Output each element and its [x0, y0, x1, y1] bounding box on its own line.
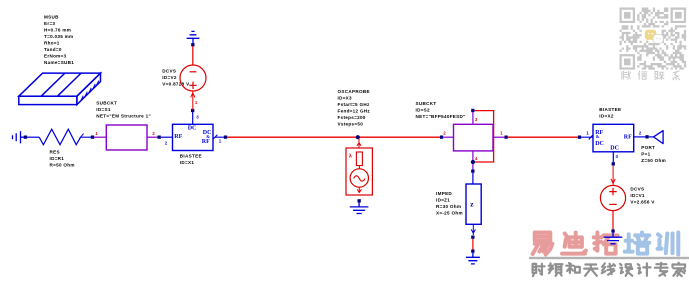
ground below Z1 — [466, 253, 480, 264]
X1 top pin stem — [192, 112, 194, 124]
svg-text:V=0.8728 V: V=0.8728 V — [162, 81, 190, 86]
ground below V1 — [604, 233, 623, 244]
svg-text:ID=V2: ID=V2 — [162, 75, 177, 80]
svg-text:P=1: P=1 — [641, 152, 650, 157]
svg-text:ID=R1: ID=R1 — [50, 156, 65, 161]
V2 minus sign — [190, 71, 197, 73]
svg-text:DC: DC — [610, 145, 619, 151]
oscaprobe internal resistor — [356, 152, 362, 166]
svg-text:DC: DC — [595, 141, 604, 147]
svg-text:Vsteps=50: Vsteps=50 — [338, 121, 364, 126]
svg-text:DCVS: DCVS — [162, 68, 176, 73]
wire V1 bottom — [612, 211, 614, 230]
wire X1 output to S2 input — [227, 136, 440, 138]
wire S2 output to X2 input — [508, 136, 578, 138]
wire V2 top — [192, 46, 194, 65]
svg-text:BIASTEE: BIASTEE — [180, 154, 202, 159]
svg-text:Fsteps=200: Fsteps=200 — [338, 115, 366, 120]
svg-text:DCVS: DCVS — [630, 186, 644, 191]
wire S1 pin2 stem — [147, 136, 158, 138]
terminal S2 pin1 — [505, 136, 508, 139]
V1 plus sign — [609, 188, 616, 195]
X1 RF&DC output pin stem with tick — [213, 135, 224, 139]
svg-text:H=0.76 mm: H=0.76 mm — [44, 27, 71, 32]
wechat icon in QR centre — [645, 30, 657, 40]
terminal S2 pin2 — [440, 136, 443, 139]
svg-text:ErNom=3: ErNom=3 — [44, 53, 67, 58]
svg-text:Fend=12 GHz: Fend=12 GHz — [338, 108, 371, 113]
subckt S1 box — [106, 125, 147, 150]
svg-text:V=2.656 V: V=2.656 V — [630, 199, 655, 204]
oscaprobe internal wire — [358, 166, 360, 170]
ground below oscaprobe — [350, 203, 369, 214]
watermark QR code top-right — [620, 8, 687, 70]
svg-text:T=0.035 mm: T=0.035 mm — [44, 34, 73, 39]
svg-text:ID=X2: ID=X2 — [599, 113, 614, 118]
wire X2 DC to V1 with arrow — [611, 166, 615, 186]
terminal V2 top — [191, 43, 194, 46]
impedance Z1 box — [466, 184, 481, 224]
svg-text:MSUB: MSUB — [44, 14, 59, 19]
svg-text:R=50 Ohm: R=50 Ohm — [50, 163, 75, 168]
watermark big brand text bottom-right (pink+blue) — [533, 233, 679, 255]
terminal X1 out — [224, 136, 227, 139]
oscaprobe X3 outer box — [346, 148, 372, 195]
wire Z1 to ground — [472, 239, 474, 250]
svg-text:RF: RF — [202, 139, 210, 145]
svg-text:RES: RES — [50, 150, 60, 155]
oscaprobe source circle with sine — [350, 169, 368, 187]
wire S2 pin4 stem (bottom) — [472, 151, 474, 170]
junction node S2 pin4 / feedback / Z1 — [471, 160, 475, 164]
wire X1 RF pin stem — [161, 136, 173, 138]
svg-text:SUBCKT: SUBCKT — [416, 101, 437, 106]
ground (left, rotated) — [13, 131, 25, 143]
svg-text:ID=X1: ID=X1 — [180, 160, 195, 165]
svg-text:R=30 Ohm: R=30 Ohm — [436, 204, 461, 209]
subckt S2 box — [454, 124, 494, 151]
watermark underline — [529, 257, 689, 259]
svg-text:Er=3: Er=3 — [44, 21, 55, 26]
terminal Z1 top — [471, 170, 474, 173]
terminal Z1 bottom — [471, 236, 474, 239]
oscaprobe bottom arrow — [357, 187, 361, 192]
terminal X2 input — [578, 136, 581, 139]
wire ground to resistor — [27, 136, 39, 138]
svg-text:ID=S2: ID=S2 — [416, 108, 431, 113]
dc source V1 circle — [600, 185, 625, 210]
V2 plus sign — [189, 82, 196, 89]
svg-text:NET="BFP540FESD": NET="BFP540FESD" — [416, 114, 466, 119]
svg-text:NET="EM Structure 1": NET="EM Structure 1" — [96, 114, 151, 119]
watermark slogan line bottom-right — [533, 263, 686, 276]
watermark text "wei xin lian xi" under QR — [622, 71, 680, 80]
junction node at oscaprobe tap — [356, 135, 360, 139]
svg-text:BIASTEE: BIASTEE — [599, 107, 621, 112]
svg-text:SUBCKT: SUBCKT — [96, 101, 117, 106]
ground (top, flipped) above V2 — [187, 31, 200, 43]
MSUB substrate 3D symbol — [19, 73, 101, 105]
wire X2 RF&DC pin stem with tick — [581, 135, 593, 139]
X2 bottom pin stem — [612, 152, 614, 163]
svg-text:Tand=0: Tand=0 — [44, 47, 62, 52]
terminal at resistor input — [24, 136, 27, 139]
wire Z1 top stem — [472, 173, 474, 184]
svg-text:Fstart=5 GHz: Fstart=5 GHz — [338, 102, 370, 107]
terminal V1 bottom — [611, 229, 614, 232]
dc source V2 circle — [180, 65, 206, 91]
terminal S2 pin3 — [471, 109, 474, 112]
svg-text:RF: RF — [174, 134, 182, 140]
node terminal at S1 pin 1 — [91, 136, 94, 139]
svg-text:ID=X3: ID=X3 — [338, 95, 353, 100]
terminal X2 DC — [612, 162, 615, 165]
wire S2 pin2 stem — [443, 136, 453, 138]
terminal S1-X1 — [158, 136, 161, 139]
terminal ground under Z1 — [471, 250, 474, 253]
V1 minus sign — [609, 203, 616, 205]
wire port stem — [649, 136, 654, 138]
svg-text:ID=V1: ID=V1 — [630, 193, 645, 198]
bias tee X2 box — [593, 124, 634, 152]
svg-text:Name=SUB1: Name=SUB1 — [44, 60, 74, 65]
svg-text:PORT: PORT — [641, 145, 655, 150]
svg-text:OSCAPROBE: OSCAPROBE — [338, 89, 370, 94]
svg-text:Rho=1: Rho=1 — [44, 40, 60, 45]
svg-text:ID=Z1: ID=Z1 — [436, 198, 450, 203]
svg-text:Z=50 Ohm: Z=50 Ohm — [641, 158, 666, 163]
feedback wire S2 pin3 to pin4 (red loop) — [475, 111, 494, 162]
oscaprobe stem from junction with arrow — [357, 139, 361, 149]
wire V2 bottom with arrow — [191, 91, 195, 110]
terminal X1 DC / V2 — [191, 109, 194, 112]
svg-text:ID=S1: ID=S1 — [96, 107, 111, 112]
svg-text:X=-25 Ohm: X=-25 Ohm — [436, 211, 463, 216]
svg-text:&: & — [596, 134, 600, 139]
resistor R1 — [39, 129, 91, 145]
port P1 symbol — [654, 131, 664, 144]
wire X2 RF out stem — [634, 136, 646, 138]
terminal below oscaprobe — [358, 199, 361, 202]
wire Z1 bottom with arrow — [471, 224, 475, 235]
terminal X2 RF / port — [645, 135, 648, 138]
wire S1 pin1 stem — [94, 136, 106, 138]
svg-text:IMPED: IMPED — [436, 191, 452, 196]
wire S2 pin1 stem (right) — [493, 136, 505, 138]
bias tee X1 box — [173, 124, 214, 150]
wire S2 pin3 stem (top) — [472, 112, 474, 125]
svg-text:DC: DC — [188, 126, 197, 132]
svg-text:RF: RF — [624, 135, 632, 141]
